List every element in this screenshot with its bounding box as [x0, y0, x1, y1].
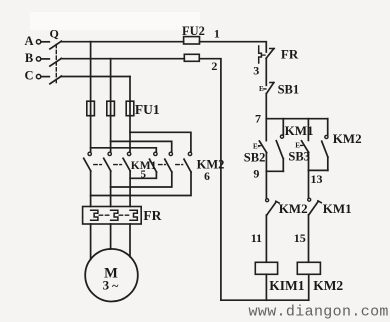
wire C stub	[41, 76, 49, 78]
wire phase C drop	[129, 77, 131, 153]
interlock contact KM1 (NC)	[308, 198, 311, 201]
contactor KM1 pole3	[127, 152, 130, 155]
FR link dashes	[99, 214, 109, 216]
coil KM2	[297, 262, 320, 274]
svg-text:E-: E-	[295, 142, 303, 150]
svg-text:B: B	[25, 51, 33, 65]
switch Q blade C	[50, 76, 62, 84]
wire bottom return	[221, 299, 309, 301]
thermal relay FR box	[83, 207, 142, 225]
svg-text:FR: FR	[143, 208, 161, 223]
node B terminal circle	[36, 57, 40, 61]
contactor KM2 pole1	[154, 152, 157, 155]
svg-text:FU1: FU1	[135, 102, 160, 117]
contactor KM1 pole2	[108, 152, 111, 155]
wire KM1 pole1 down	[90, 171, 92, 206]
aux contact KM1 (NO)	[280, 135, 283, 138]
wire feed B to KM2 pole2	[111, 141, 172, 152]
svg-text:7: 7	[255, 112, 261, 126]
wire line 2 down	[199, 59, 221, 301]
wire coil KM1 bottom	[265, 274, 267, 300]
wire node 7 rail	[266, 118, 327, 120]
wire KM1 aux down	[282, 159, 284, 172]
wire coil KM2 bottom	[308, 274, 310, 300]
pushbutton SB2 (NO start)	[259, 141, 266, 153]
motor M circle	[85, 249, 138, 302]
svg-text:2: 2	[211, 59, 217, 73]
wire phase B drop	[110, 59, 112, 153]
svg-text:FR: FR	[281, 47, 299, 62]
svg-text:13: 13	[311, 172, 323, 186]
svg-text:FU2: FU2	[182, 24, 205, 38]
svg-text:3 ~: 3 ~	[103, 278, 120, 293]
svg-text:KM2: KM2	[313, 278, 343, 293]
svg-text:KM2: KM2	[197, 158, 225, 172]
aux contact KM2 branch wire	[327, 119, 329, 135]
svg-text:6: 6	[204, 171, 210, 183]
wire row C	[61, 76, 130, 78]
svg-text:A: A	[24, 34, 33, 48]
node A terminal circle	[36, 40, 40, 44]
wire KM1 pole3 down	[129, 171, 131, 206]
svg-text:KM2: KM2	[279, 201, 308, 216]
fuse FU1 pole B	[107, 101, 115, 116]
svg-text:15: 15	[294, 231, 306, 245]
wire SB3 to node 13	[308, 152, 310, 198]
wire FR to motor U	[90, 224, 92, 259]
wire tie KM1p1-KM2p3	[91, 172, 191, 196]
wire tie KM1p2-KM2p2	[111, 172, 172, 187]
svg-text:Q: Q	[50, 26, 59, 40]
wire FR to motor W	[129, 224, 131, 257]
pushbutton SB2 branch wire	[265, 119, 267, 141]
wire row B	[61, 58, 185, 60]
wire KM2 aux down	[327, 157, 329, 170]
wire B stub	[41, 58, 49, 60]
svg-text:E-: E-	[259, 85, 267, 93]
aux contact KM2 (NO)	[325, 135, 328, 138]
FR NC contact (control)	[270, 48, 275, 50]
pushbutton SB3 (NO start)	[302, 141, 309, 153]
mechanical link dashes KM2	[159, 164, 166, 166]
pushbutton SB1 (NC stop)	[270, 82, 274, 84]
svg-text:www.diangon.com: www.diangon.com	[249, 304, 389, 321]
svg-text:KIM1: KIM1	[269, 278, 304, 293]
svg-text:SB3: SB3	[288, 150, 310, 164]
svg-text:1: 1	[214, 26, 220, 40]
wire 3	[265, 58, 267, 85]
FR heater element 3	[130, 210, 137, 220]
wire KM1 pole2 down	[110, 171, 112, 206]
wire to node 7	[265, 94, 267, 119]
wire tie KM1p3-KM2p1	[130, 172, 156, 178]
pushbutton SB3 branch wire	[307, 119, 309, 141]
svg-text:SB1: SB1	[278, 83, 300, 97]
wire SB2 to node 9	[265, 153, 267, 199]
wire join node 9	[266, 170, 283, 172]
fuse FU1 pole C	[126, 101, 134, 116]
aux contact KM1 branch wire	[282, 119, 284, 135]
svg-text:KM1: KM1	[285, 123, 314, 138]
wire join node 13	[308, 169, 327, 171]
coil KM1	[255, 262, 277, 274]
svg-text:KM2: KM2	[333, 131, 362, 146]
svg-text:E-: E-	[253, 142, 261, 150]
svg-text:11: 11	[251, 231, 262, 245]
FR heater element 2	[111, 210, 118, 220]
wire feed A to KM2 pole1	[91, 148, 157, 152]
switch Q mechanical link (dashed)	[55, 45, 57, 85]
svg-text:C: C	[24, 69, 33, 83]
contactor KM2 pole2	[169, 152, 172, 155]
wire feed C to KM2 pole3	[130, 132, 191, 152]
mechanical link dashes KM1	[94, 164, 102, 166]
switch Q blade B	[50, 58, 62, 66]
svg-text:3: 3	[253, 63, 259, 77]
node C terminal circle	[36, 74, 40, 78]
wire to coil KM1	[265, 215, 267, 262]
switch Q blade A	[50, 41, 62, 49]
contactor KM2 pole3	[188, 152, 191, 155]
wire line 1	[200, 42, 267, 52]
fuse FU2 bottom	[184, 54, 199, 61]
svg-text:9: 9	[253, 167, 259, 181]
svg-text:5: 5	[140, 169, 146, 181]
wire A stub	[41, 41, 49, 43]
wire to coil KM2	[308, 215, 310, 263]
fuse FU2 top	[184, 37, 200, 44]
wire FR to motor V	[110, 224, 112, 249]
interlock contact KM2 (NC)	[266, 199, 269, 202]
FR heater element 1	[91, 210, 98, 220]
wire row A	[61, 41, 184, 43]
wire phase A drop	[90, 42, 92, 153]
svg-text:KM1: KM1	[323, 201, 352, 216]
svg-text:SB2: SB2	[244, 151, 266, 165]
fuse FU1 pole A	[87, 101, 95, 116]
contactor KM1 pole1	[88, 152, 91, 155]
